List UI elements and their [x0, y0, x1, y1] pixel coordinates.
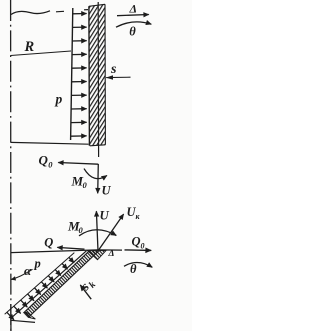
- svg-text:Q: Q: [44, 235, 53, 249]
- svg-text:Q: Q: [39, 153, 49, 168]
- svg-text:θ: θ: [129, 25, 136, 39]
- svg-text:R: R: [24, 39, 35, 55]
- svg-text:U: U: [100, 208, 110, 222]
- svg-text:Δ: Δ: [108, 249, 115, 259]
- svg-text:0: 0: [141, 242, 145, 251]
- svg-text:Δ: Δ: [129, 2, 138, 16]
- svg-text:θ: θ: [130, 262, 137, 276]
- svg-text:U: U: [102, 183, 112, 197]
- svg-text:p: p: [55, 92, 63, 107]
- svg-text:p: p: [34, 257, 41, 271]
- svg-text:0: 0: [48, 160, 53, 170]
- svg-text:s: s: [110, 62, 117, 77]
- svg-text:Q: Q: [132, 235, 141, 249]
- svg-text:α: α: [24, 263, 32, 278]
